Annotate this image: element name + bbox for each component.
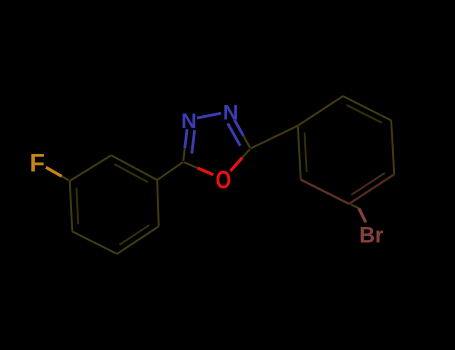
bond C-Br xyxy=(351,205,359,209)
double bond N3=C2 xyxy=(185,129,187,148)
svg-text:F: F xyxy=(30,149,45,177)
left ring bond xyxy=(111,155,157,180)
left ring bond xyxy=(72,232,117,254)
right ring bond xyxy=(391,120,394,174)
left ring bond xyxy=(157,180,159,226)
svg-text:O: O xyxy=(216,167,232,195)
left ring bond xyxy=(70,155,112,181)
bond C5-aryl xyxy=(251,126,298,149)
svg-text:Br: Br xyxy=(359,223,384,248)
left ring bond xyxy=(70,181,73,232)
right ring bond xyxy=(343,96,391,120)
right ring bond near Br 2 xyxy=(301,180,349,204)
right ring bond near Br xyxy=(349,174,394,204)
left ring inner double xyxy=(119,225,149,245)
bond C2-O1 xyxy=(184,162,197,168)
left ring inner double xyxy=(76,188,78,225)
right ring bond xyxy=(298,96,343,126)
bond N3-N4 xyxy=(197,113,221,118)
right ring bond xyxy=(298,126,301,180)
bond C2-aryl xyxy=(157,162,183,180)
svg-text:N: N xyxy=(223,101,239,125)
right ring inner double xyxy=(305,132,307,172)
right ring inner double xyxy=(346,105,382,123)
svg-text:N: N xyxy=(181,109,197,133)
bond O1-C5 xyxy=(230,158,242,172)
left ring bond xyxy=(117,226,159,254)
left ring inner double xyxy=(114,164,148,182)
bond C-F xyxy=(62,176,69,180)
double bond N4=C5 xyxy=(234,120,243,136)
right ring inner double near Br xyxy=(351,173,385,195)
